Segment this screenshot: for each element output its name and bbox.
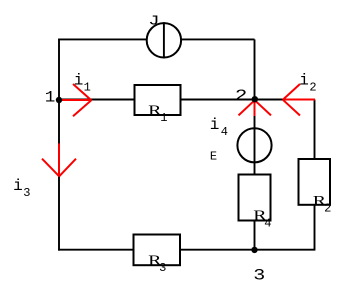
wire middle horizontal node1 to node2: [59, 99, 255, 101]
node 2: [252, 96, 258, 102]
svg-text:i: i: [210, 116, 220, 134]
label R2: [313, 192, 332, 216]
svg-text:4: 4: [264, 216, 271, 230]
resistor R4: [239, 175, 271, 221]
label R1: [148, 102, 167, 126]
svg-text:2: 2: [235, 87, 247, 105]
wire top horizontal: [59, 38, 255, 40]
svg-text:1: 1: [84, 81, 91, 95]
resistor R1: [135, 85, 181, 115]
wire bottom horizontal: [58, 249, 315, 251]
resistor R3: [134, 235, 181, 266]
node 1: [56, 97, 62, 103]
label i4: [210, 116, 228, 139]
svg-text:3: 3: [253, 267, 265, 285]
svg-text:3: 3: [159, 261, 166, 275]
svg-text:4: 4: [221, 125, 228, 139]
svg-text:1: 1: [160, 111, 167, 125]
current arrow i4: [239, 100, 272, 116]
EMF source E circle: [237, 127, 271, 163]
current source J circle: [147, 22, 181, 58]
wire node2 to right branch: [255, 99, 315, 101]
node 3: [251, 247, 257, 253]
current arrow i2: [283, 84, 315, 116]
wire left vertical: [58, 39, 60, 251]
wire right-top vertical (node 2 up): [254, 39, 256, 99]
label R4: [253, 206, 271, 230]
svg-text:2: 2: [309, 80, 316, 94]
svg-text:i: i: [74, 72, 84, 90]
svg-text:3: 3: [23, 186, 30, 200]
svg-text:J: J: [148, 13, 159, 29]
wire right vertical branch: [314, 100, 316, 250]
wire middle vertical node2 to node3: [254, 100, 256, 250]
label i2: [299, 72, 316, 95]
label R3: [148, 252, 166, 275]
svg-text:i: i: [13, 177, 23, 195]
svg-text:1: 1: [45, 89, 56, 107]
label i3: [13, 177, 30, 200]
resistor R2: [299, 159, 331, 205]
current arrow i1: [59, 84, 91, 116]
label i1: [74, 72, 91, 95]
svg-text:2: 2: [324, 202, 331, 216]
svg-text:i: i: [299, 72, 309, 90]
current arrow i3: [42, 144, 76, 177]
svg-text:E: E: [210, 150, 217, 164]
